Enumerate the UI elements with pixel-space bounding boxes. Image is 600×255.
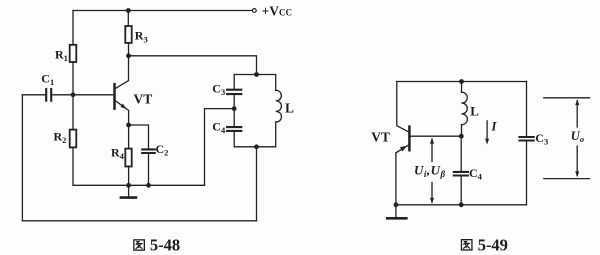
capacitor C4 (fig 5-49) (454, 172, 468, 176)
resistor R4 (125, 149, 131, 167)
svg-text:5-48: 5-48 (150, 236, 180, 255)
inductor L (fig 5-48) (276, 90, 282, 122)
resistor R1 (70, 45, 77, 62)
svg-text:C4: C4 (469, 166, 483, 182)
wire: C2 bottom lead (148, 154, 150, 185)
wire: tank top left arm (234, 74, 256, 76)
measurement arrow Ui,Ub (431, 139, 433, 203)
node: emitter junction (126, 123, 131, 128)
ground (fig 5-48) (128, 185, 130, 196)
svg-text:C3: C3 (535, 131, 548, 147)
label Ui,Ub on white (411, 163, 449, 179)
capacitor C3 (227, 90, 241, 94)
node: C4 bottom junction (459, 202, 464, 207)
wire: C4 bottom lead to tank bottom (234, 132, 256, 147)
wire: C4 top lead (233, 109, 235, 127)
node: emitter / ground junction (394, 202, 399, 207)
wire: C3 bottom lead (233, 95, 235, 109)
svg-text:L: L (285, 100, 294, 115)
wire: top rail (397, 81, 527, 83)
svg-text:5-49: 5-49 (478, 236, 508, 255)
wire: tank top right arm (257, 75, 276, 91)
svg-text:C3: C3 (212, 82, 225, 98)
wire: emitter rail (129, 184, 205, 186)
node: C3/C4 midpoint (232, 106, 237, 111)
capacitor C4 (227, 127, 241, 131)
transistor VT emitter lead with arrow (116, 101, 129, 125)
wire: right branch bottom (526, 141, 528, 204)
transistor VT (fig 5-49) emitter lead with arrow (396, 145, 409, 205)
wire: L bottom lead (461, 125, 463, 137)
svg-text:R2: R2 (54, 130, 67, 146)
node: tank bottom junction (254, 144, 259, 149)
wire: L top lead (461, 82, 463, 93)
caption glyph 图 (fig 5-48) (134, 240, 145, 250)
wire: top supply rail (73, 10, 252, 12)
transistor VT (fig 5-49) collector lead (397, 82, 409, 132)
transistor VT (fig 5-49) base bar (408, 127, 411, 151)
wire: left feedback riser (21, 95, 23, 221)
wire: C4 bottom lead (460, 176, 462, 204)
wire: C2 top link (129, 125, 149, 148)
inductor L (fig 5-49) (462, 92, 468, 124)
measurement bars Uo (544, 98, 590, 179)
svg-text:L: L (470, 103, 479, 118)
wire: collector rail to tank top (129, 56, 257, 75)
node: C2 bottom junction (146, 183, 151, 188)
wire: R2 top lead (72, 95, 74, 130)
capacitor C2 (142, 149, 155, 153)
wire: base lead to L/C4 node (411, 135, 461, 137)
wire: R4 bottom lead (128, 167, 130, 186)
svg-text:C1: C1 (41, 71, 54, 87)
capacitor C3 (fig 5-49) (520, 137, 534, 141)
svg-text:R3: R3 (135, 29, 148, 45)
transistor VT (fig 5-48) base bar (113, 84, 116, 108)
wire: emitter rail up to divider midpoint (205, 109, 234, 186)
current arrow I (486, 121, 488, 140)
terminal +Vcc open circle (252, 9, 256, 13)
wire: R4 top lead (128, 125, 130, 149)
resistor R2 (70, 130, 77, 148)
wire: tank bottom drop to feedback rail (256, 147, 258, 221)
wire: R1 top lead (72, 11, 74, 45)
wire: right branch top (526, 82, 528, 137)
ground (fig 5-49) (395, 205, 397, 218)
svg-text:VT: VT (134, 91, 153, 106)
node: ground junction (126, 183, 131, 188)
svg-text:R4: R4 (111, 146, 125, 162)
node: L / C4 / base junction (459, 134, 464, 139)
svg-text:C4: C4 (212, 119, 226, 135)
wire: bottom feedback rail (22, 220, 256, 222)
node: collector junction under R3 (126, 53, 131, 58)
svg-text:VT: VT (371, 129, 390, 144)
wire: L bottom lead (257, 122, 276, 147)
svg-text:R1: R1 (55, 48, 68, 64)
wire: R1 bottom lead to base node (72, 62, 74, 95)
node: base divider junction (71, 92, 76, 97)
wire: C1 right lead / base wire (52, 94, 113, 96)
svg-text:C2: C2 (156, 142, 169, 158)
node: L top junction (459, 79, 464, 84)
wire: C3 top lead (233, 75, 235, 89)
measurement arrow Uo (576, 101, 578, 176)
transistor VT collector lead (116, 56, 129, 89)
wire: R2 bottom lead and run to emitter rail (73, 147, 129, 185)
wire: C1 left lead (22, 94, 45, 96)
capacitor C1 (46, 89, 51, 101)
wire: C4 top lead (460, 136, 462, 171)
wire: bottom rail (396, 204, 527, 206)
svg-text:+VCC: +VCC (262, 4, 292, 19)
svg-text:I: I (491, 120, 498, 134)
label Uo on white (569, 129, 586, 145)
node: tank top junction (254, 72, 259, 77)
node: junction top rail / R3 (126, 8, 131, 13)
caption glyph 图 (fig 5-49) (461, 240, 472, 250)
resistor R3 (127, 11, 129, 27)
